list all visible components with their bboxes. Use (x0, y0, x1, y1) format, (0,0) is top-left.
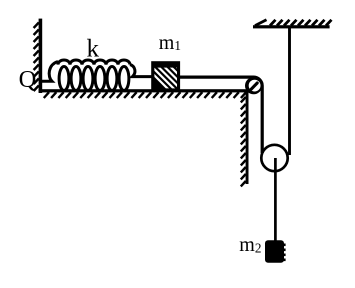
ceiling hatching (255, 20, 332, 26)
wall hatching (34, 23, 39, 92)
table edge hatching (241, 97, 246, 186)
mass m1 block (hatched) (139, 60, 208, 92)
svg-text:m1: m1 (159, 32, 181, 54)
rod/string from ceiling to pulley right side (288, 28, 291, 155)
corner peg (pulley at table edge) (245, 77, 262, 94)
string from pulley axle down to m2 (274, 158, 277, 241)
wall (left vertical support) (39, 19, 43, 93)
movable pulley (261, 145, 287, 171)
svg-text:Q: Q (19, 66, 37, 93)
spring k (coil) (42, 60, 153, 91)
table right edge (246, 91, 249, 184)
svg-text:k: k (87, 36, 100, 63)
ceiling (253, 25, 330, 28)
mass m2 block (265, 240, 286, 263)
floor / table top surface (39, 89, 250, 92)
svg-text:m2: m2 (239, 234, 261, 256)
string from m1 over corner peg, down to movable pulley (180, 77, 262, 153)
floor hatching (44, 92, 246, 98)
